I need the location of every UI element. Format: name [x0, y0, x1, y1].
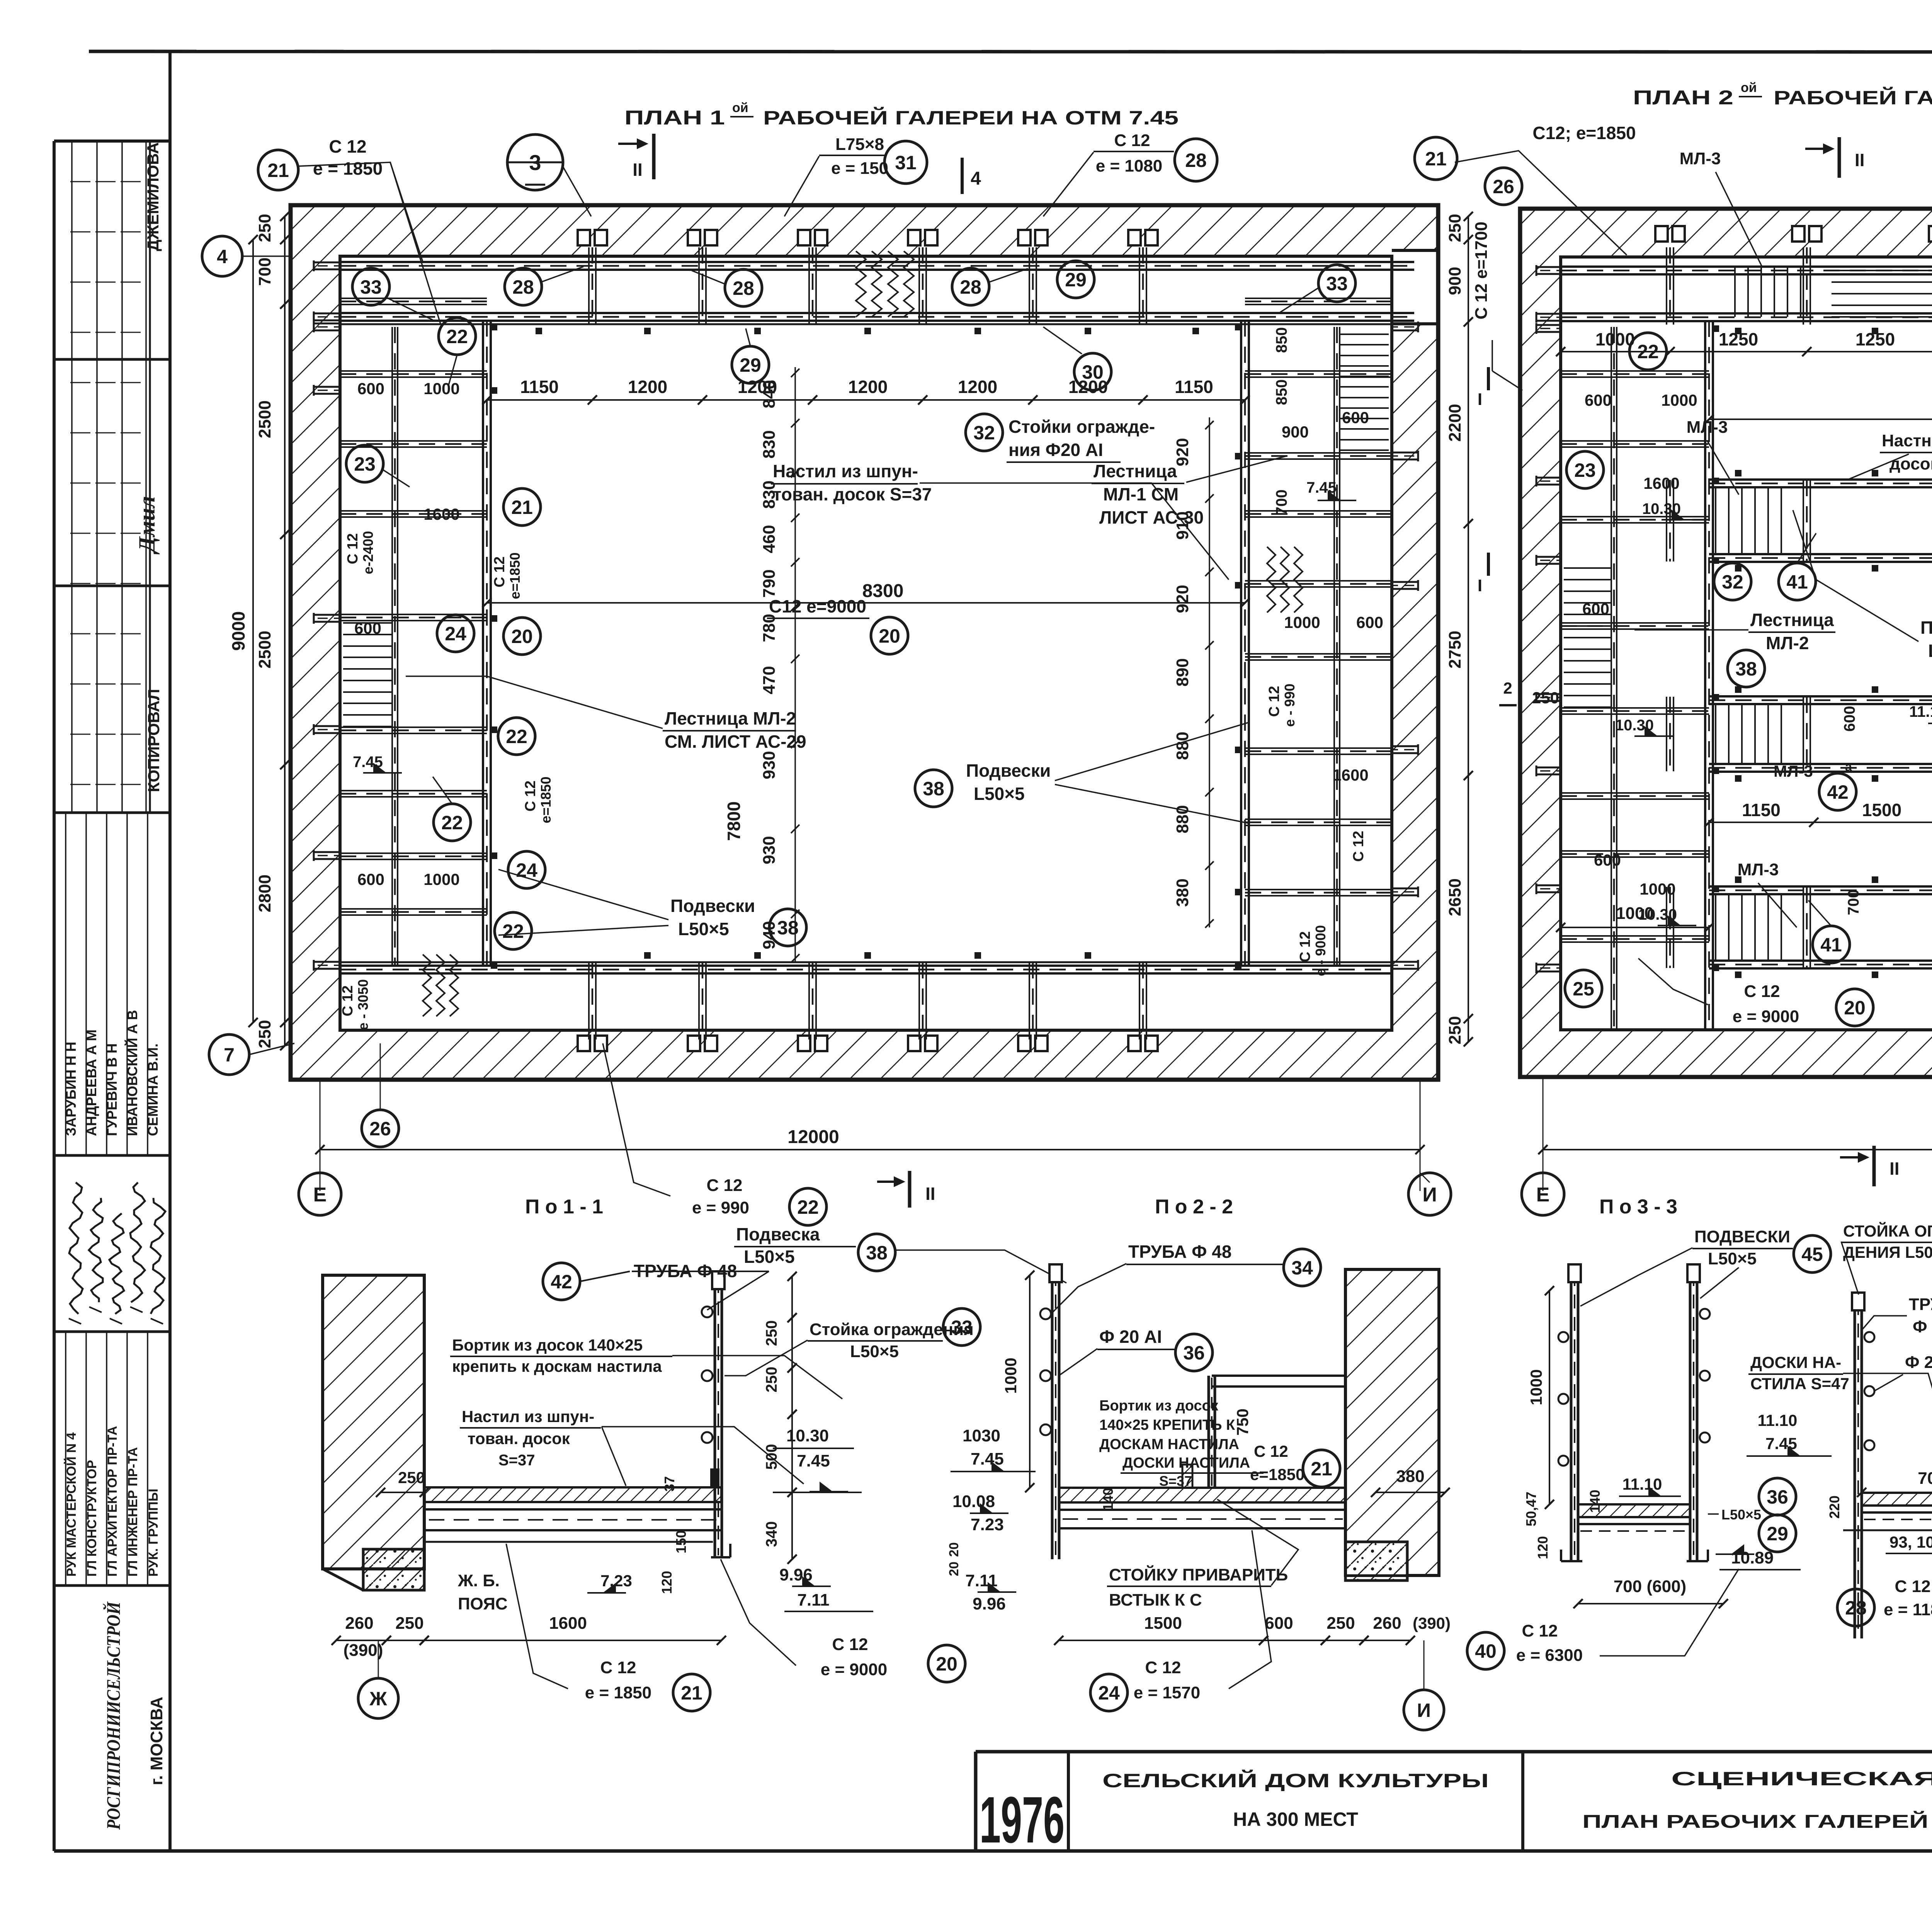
svg-text:II: II: [1855, 150, 1865, 170]
plan 1 callout 28 top right: [1175, 139, 1217, 181]
svg-text:L50×5: L50×5: [1928, 641, 1932, 661]
plan 1 right gallery dots: [1235, 324, 1242, 330]
svg-text:2: 2: [1503, 679, 1512, 697]
svg-text:250: 250: [255, 1020, 274, 1048]
svg-text:1000: 1000: [1661, 391, 1697, 409]
svg-text:21: 21: [1311, 1458, 1332, 1480]
svg-text:32: 32: [1722, 571, 1743, 593]
svg-text:Стойки огражде-: Стойки огражде-: [1009, 417, 1155, 437]
svg-text:Лестница: Лестница: [1750, 610, 1834, 630]
svg-text:29: 29: [1767, 1523, 1788, 1545]
section 4-4 C12 e1180 callout: [1837, 1589, 1874, 1626]
svg-text:2500: 2500: [255, 400, 274, 438]
svg-text:930: 930: [760, 836, 779, 864]
section 2-2 wall: [1345, 1269, 1439, 1575]
svg-text:26: 26: [369, 1118, 391, 1140]
plan 1 left gallery dots: [491, 324, 497, 330]
svg-text:30: 30: [1082, 361, 1104, 383]
svg-text:600: 600: [357, 379, 384, 398]
svg-text:28: 28: [733, 277, 754, 299]
svg-text:I: I: [1478, 576, 1482, 595]
svg-text:2200: 2200: [1446, 404, 1464, 442]
svg-text:И: И: [1417, 1700, 1431, 1721]
plan 1 left gallery compartments: [340, 298, 487, 299]
title block frame: [976, 1750, 1932, 1754]
svg-text:41: 41: [1786, 571, 1808, 593]
svg-text:20: 20: [936, 1653, 957, 1675]
svg-text:Подвески: Подвески: [1920, 618, 1932, 638]
svg-text:7.45: 7.45: [797, 1451, 830, 1470]
svg-text:8300: 8300: [862, 581, 904, 601]
svg-text:е = 1850: е = 1850: [313, 158, 383, 179]
svg-text:36: 36: [1767, 1486, 1788, 1508]
svg-text:23: 23: [1574, 459, 1596, 481]
plan 2 band B gallery: [1709, 478, 1932, 481]
svg-text:S=37: S=37: [1159, 1473, 1192, 1489]
svg-text:С 12: С 12: [1350, 831, 1367, 862]
svg-text:1200: 1200: [628, 377, 667, 397]
svg-text:11.10: 11.10: [1909, 703, 1932, 720]
svg-text:7800: 7800: [724, 801, 744, 841]
svg-text:2650: 2650: [1446, 878, 1464, 916]
svg-text:СТИЛА S=47: СТИЛА S=47: [1750, 1375, 1849, 1393]
axis circle E plan1: [299, 1173, 341, 1215]
svg-text:1150: 1150: [1175, 377, 1213, 397]
svg-text:е = 1080: е = 1080: [1096, 157, 1163, 175]
svg-text:600: 600: [1585, 391, 1612, 409]
svg-text:е = 990: е = 990: [692, 1198, 749, 1217]
svg-text:380: 380: [1396, 1467, 1424, 1486]
svg-text:20: 20: [1844, 997, 1866, 1019]
svg-text:700: 700: [1273, 490, 1290, 515]
svg-text:L50×5: L50×5: [974, 784, 1025, 804]
svg-text:РОСГИПРОНИИСЕЛЬСТРОЙ: РОСГИПРОНИИСЕЛЬСТРОЙ: [102, 1601, 124, 1830]
svg-text:32: 32: [973, 422, 995, 444]
svg-text:МЛ-3: МЛ-3: [1774, 762, 1813, 780]
section 1-1 wall: [323, 1275, 424, 1569]
plan 2 wall ring hatched: [1520, 209, 1932, 1077]
svg-text:28: 28: [1185, 150, 1207, 171]
plan 1 left outside dims: [284, 216, 286, 1046]
plan 1 dim 8300: [487, 602, 1245, 604]
svg-text:120: 120: [1535, 1536, 1551, 1559]
svg-text:Е: Е: [1536, 1184, 1550, 1206]
svg-text:е = 6300: е = 6300: [1516, 1646, 1583, 1665]
svg-text:380: 380: [1173, 878, 1192, 907]
section 3-3 bottom angles: [1561, 1560, 1582, 1562]
section 1-1 zh axis circle: [358, 1678, 398, 1718]
svg-text:ДОСКИ НА-: ДОСКИ НА-: [1750, 1353, 1841, 1371]
svg-text:С 12: С 12: [1266, 686, 1282, 717]
svg-text:L75×8: L75×8: [835, 135, 884, 154]
svg-text:1150: 1150: [520, 377, 559, 397]
svg-text:7: 7: [224, 1044, 235, 1066]
svg-text:600: 600: [1594, 851, 1621, 869]
svg-text:250: 250: [1446, 214, 1464, 242]
svg-text:II: II: [925, 1184, 935, 1204]
svg-text:900: 900: [1282, 423, 1309, 441]
svg-text:е - 990: е - 990: [1282, 684, 1298, 727]
svg-text:900: 900: [1446, 267, 1464, 295]
svg-text:250: 250: [1446, 1016, 1464, 1044]
svg-text:150: 150: [673, 1530, 689, 1553]
svg-text:22: 22: [441, 812, 463, 834]
section 3-3 deck: [1578, 1504, 1690, 1517]
svg-text:ПЛАН 2: ПЛАН 2: [1633, 87, 1733, 109]
svg-text:38: 38: [923, 778, 944, 800]
svg-text:1000: 1000: [1639, 880, 1675, 898]
section 3-3 C12 e6300 callout: [1467, 1632, 1504, 1669]
svg-text:1200: 1200: [958, 377, 997, 397]
svg-text:37: 37: [662, 1476, 677, 1492]
svg-text:С 12: С 12: [600, 1658, 636, 1677]
svg-text:4: 4: [217, 246, 228, 267]
svg-text:250: 250: [763, 1320, 780, 1346]
plan 2 top gallery posts pockets: [1655, 226, 1668, 242]
svg-text:е = 1180: е = 1180: [1884, 1600, 1932, 1619]
svg-text:С 12: С 12: [340, 985, 356, 1016]
svg-text:33: 33: [951, 1317, 973, 1338]
svg-text:1000: 1000: [423, 870, 459, 888]
plan 1 right gallery rails: [1240, 320, 1242, 966]
svg-text:40: 40: [1475, 1640, 1497, 1662]
plan 2 top gallery stair hatch: [1832, 270, 1932, 271]
plan 2 left gallery stair: [1564, 567, 1611, 569]
svg-text:260: 260: [345, 1614, 373, 1633]
svg-text:600: 600: [1582, 600, 1609, 618]
svg-text:ПОДВЕСКИ: ПОДВЕСКИ: [1694, 1227, 1790, 1246]
sheet frame: [89, 51, 1932, 52]
plan 1 right interior dim column: [1209, 417, 1210, 927]
plan 2 band D gallery: [1709, 885, 1932, 888]
svg-text:700: 700: [255, 257, 274, 286]
svg-text:II: II: [1889, 1159, 1900, 1179]
svg-text:20: 20: [947, 1542, 961, 1557]
svg-text:4: 4: [971, 168, 981, 189]
plan 1 bottom gallery posts: [578, 1036, 590, 1051]
svg-text:41: 41: [1820, 934, 1842, 956]
svg-text:24: 24: [1098, 1682, 1120, 1704]
stamp signatures 2: [69, 1182, 83, 1314]
svg-text:750: 750: [1233, 1409, 1252, 1436]
plan 1 top gallery rails: [340, 261, 1414, 263]
plan 1 gallery callouts top row: [352, 268, 389, 305]
plan 1 left gallery squiggle: [423, 954, 431, 1016]
svg-text:9000: 9000: [228, 611, 248, 651]
svg-text:L50×5: L50×5: [1721, 1507, 1761, 1523]
svg-text:С 12: С 12: [1522, 1621, 1558, 1640]
svg-text:ния Ф20 АI: ния Ф20 АI: [1009, 440, 1103, 460]
svg-text:260: 260: [1373, 1614, 1401, 1633]
svg-text:22: 22: [502, 920, 524, 942]
svg-text:1150: 1150: [1742, 800, 1781, 820]
svg-text:Настна из шпунтов.: Настна из шпунтов.: [1882, 431, 1932, 450]
svg-text:7.23: 7.23: [600, 1572, 632, 1590]
plan 1 callout 26 bottom: [362, 1110, 399, 1147]
plan 1 section II bottom mark: [908, 1171, 912, 1208]
svg-text:21: 21: [1425, 148, 1447, 170]
svg-text:50,47: 50,47: [1523, 1492, 1539, 1526]
svg-text:S=37: S=37: [498, 1452, 535, 1469]
svg-text:СЕЛЬСКИЙ ДОМ КУЛЬТУРЫ: СЕЛЬСКИЙ ДОМ КУЛЬТУРЫ: [1102, 1769, 1489, 1791]
svg-text:е = 150: е = 150: [831, 159, 888, 178]
plan 1 interior vertical dim column: [794, 367, 796, 962]
svg-text:2750: 2750: [1446, 631, 1464, 669]
svg-text:140: 140: [1100, 1488, 1116, 1511]
svg-text:1000: 1000: [1002, 1358, 1020, 1393]
svg-text:22: 22: [1637, 341, 1659, 362]
svg-text:С 12: С 12: [522, 781, 539, 811]
axis circle I plan1: [1408, 1173, 1451, 1215]
svg-text:7.45: 7.45: [1306, 479, 1337, 496]
axis circle E plan2: [1522, 1173, 1564, 1215]
svg-text:е - 3050: е - 3050: [355, 979, 371, 1030]
plan 1 right gallery stair ML-1: [1340, 333, 1389, 335]
svg-text:МЛ-3: МЛ-3: [1680, 149, 1721, 168]
svg-text:РАБОЧЕЙ ГАЛЕРЕИ НА ОТМ 7: РАБОЧЕЙ ГАЛЕРЕИ НА ОТМ 7.45: [763, 107, 1179, 129]
plan 2 dim 12000: [1543, 1149, 1932, 1150]
svg-text:И: И: [1422, 1184, 1437, 1206]
svg-text:1600: 1600: [549, 1614, 587, 1633]
svg-text:1250: 1250: [1719, 329, 1758, 349]
svg-text:Подвеска: Подвеска: [736, 1224, 820, 1244]
svg-text:28: 28: [960, 276, 981, 298]
svg-text:II: II: [633, 160, 643, 180]
svg-text:е=1850: е=1850: [1250, 1465, 1304, 1483]
plan 1 callout 21 top left: [258, 150, 298, 190]
svg-text:890: 890: [1173, 658, 1192, 686]
svg-text:Ф 20 АI: Ф 20 АI: [1905, 1353, 1932, 1372]
plan 1 top gallery deck squiggle: [856, 251, 866, 317]
svg-text:ой: ой: [1741, 80, 1757, 95]
svg-text:460: 460: [760, 525, 779, 553]
svg-text:7.23: 7.23: [971, 1515, 1004, 1534]
svg-text:790: 790: [760, 569, 779, 597]
svg-text:33: 33: [1326, 273, 1348, 294]
plan 2 left gallery: [1704, 321, 1706, 1030]
plan 1 wall outlines: [291, 205, 1438, 1080]
plan 1 right outside dims: [1468, 216, 1469, 1042]
section 1-1 railing post: [714, 1276, 716, 1557]
svg-text:С 12: С 12: [329, 136, 366, 157]
svg-text:е = 1570: е = 1570: [1134, 1683, 1201, 1702]
svg-text:34: 34: [1291, 1257, 1313, 1279]
plan 1 mark 2 right margin: [1499, 704, 1517, 706]
section 2-2 inner post: [1207, 1376, 1210, 1488]
svg-text:Стойка ограждения: Стойка ограждения: [810, 1320, 974, 1339]
svg-text:—: —: [525, 172, 545, 195]
svg-text:(390): (390): [344, 1641, 383, 1660]
svg-text:600: 600: [1265, 1614, 1293, 1633]
plan 1 dim 12000: [320, 1149, 1420, 1150]
svg-text:С 12: С 12: [1145, 1658, 1181, 1677]
svg-text:1200: 1200: [848, 377, 888, 397]
svg-text:38: 38: [1735, 658, 1757, 680]
plan 2 band C gallery: [1709, 695, 1932, 698]
svg-text:КОПИРОВАЛ: КОПИРОВАЛ: [145, 689, 163, 792]
svg-text:(390): (390): [1413, 1614, 1451, 1632]
svg-text:ТРУБА: ТРУБА: [1909, 1295, 1932, 1314]
svg-text:12000: 12000: [787, 1127, 839, 1147]
svg-text:С 12: С 12: [832, 1635, 868, 1654]
svg-text:22: 22: [797, 1196, 819, 1218]
section 2-2 axis I circle: [1404, 1690, 1444, 1730]
svg-text:С12; е=1850: С12; е=1850: [1532, 123, 1636, 143]
svg-text:С 12: С 12: [1895, 1577, 1931, 1596]
svg-text:Подвески: Подвески: [670, 896, 755, 916]
svg-text:9.96: 9.96: [973, 1594, 1006, 1613]
svg-text:20: 20: [511, 626, 533, 647]
svg-text:L50×5: L50×5: [744, 1247, 795, 1267]
svg-text:Е: Е: [313, 1184, 327, 1206]
svg-text:МЛ-3: МЛ-3: [1687, 418, 1728, 437]
svg-text:Ф 48: Ф 48: [1913, 1317, 1932, 1336]
svg-text:42: 42: [551, 1271, 572, 1293]
svg-text:42: 42: [1827, 781, 1849, 803]
svg-text:СТОЙКУ ПРИВАРИТЬ: СТОЙКУ ПРИВАРИТЬ: [1109, 1565, 1288, 1584]
svg-text:850: 850: [1273, 379, 1290, 405]
svg-text:МЛ-2: МЛ-2: [1766, 633, 1809, 653]
svg-text:I: I: [1478, 390, 1482, 409]
svg-text:20: 20: [879, 625, 900, 647]
svg-text:ТРУБА Ф 48: ТРУБА Ф 48: [1128, 1242, 1231, 1262]
svg-text:700: 700: [1845, 890, 1862, 915]
svg-text:850: 850: [1273, 327, 1290, 353]
plan 2 section marks bottom: [1872, 1146, 1876, 1186]
svg-text:Настил из шпун-: Настил из шпун-: [462, 1407, 594, 1426]
section 4-4 post: [1854, 1298, 1856, 1638]
plan 2 wall outlines: [1520, 209, 1932, 1077]
svg-text:L50×5: L50×5: [1708, 1249, 1757, 1268]
section 1-1 bottom angle: [711, 1556, 730, 1558]
svg-text:340: 340: [763, 1521, 780, 1547]
plan 2 dims 1000 bottom: [1561, 927, 1709, 928]
svg-text:Бортик из досок: Бортик из досок: [1099, 1398, 1219, 1414]
plan 1 section mark 3 top: [507, 134, 563, 190]
svg-text:2500: 2500: [255, 631, 274, 669]
svg-text:Подвески: Подвески: [966, 760, 1051, 781]
svg-text:26: 26: [1493, 176, 1514, 197]
plan 1 horizontal dims 1150-1200: [487, 399, 1245, 401]
svg-text:1600: 1600: [1332, 766, 1368, 784]
svg-text:СЦЕНИЧЕСКАЯ КОРОБКА.: СЦЕНИЧЕСКАЯ КОРОБКА.: [1671, 1768, 1932, 1790]
axis circle 7: [209, 1034, 249, 1075]
plan 1 section II top mark: [652, 134, 656, 179]
svg-text:е = 9000: е = 9000: [821, 1660, 888, 1679]
svg-text:7.45: 7.45: [971, 1449, 1004, 1468]
svg-text:250: 250: [398, 1468, 425, 1487]
svg-text:21: 21: [681, 1682, 702, 1704]
plan 1 left gallery stair ML-2: [343, 622, 392, 624]
svg-text:33: 33: [360, 276, 382, 298]
plan 1 callout 31 top: [884, 141, 927, 184]
svg-text:ДОСКАМ НАСТИЛА: ДОСКАМ НАСТИЛА: [1099, 1436, 1239, 1453]
svg-text:С 12: С 12: [345, 533, 361, 564]
svg-text:93, 10 88: 93, 10 88: [1889, 1533, 1932, 1551]
svg-text:250: 250: [255, 214, 274, 242]
svg-text:36: 36: [1183, 1342, 1205, 1364]
svg-text:830: 830: [760, 430, 779, 458]
svg-text:крепить к доскам настила: крепить к доскам настила: [452, 1357, 662, 1375]
svg-text:ой: ой: [732, 100, 748, 115]
svg-text:920: 920: [1173, 585, 1192, 613]
svg-text:досок S = 37: досок S = 37: [1889, 454, 1932, 473]
svg-text:22: 22: [506, 726, 527, 747]
svg-text:Бортик из досок 140×25: Бортик из досок 140×25: [452, 1336, 643, 1354]
section 3-3 right post: [1689, 1269, 1692, 1561]
svg-text:е-2400: е-2400: [360, 531, 376, 574]
section 3-3 left post: [1570, 1269, 1573, 1561]
svg-text:С 12: С 12: [1744, 982, 1780, 1001]
svg-text:25: 25: [1573, 978, 1594, 1000]
svg-text:10.08: 10.08: [952, 1492, 995, 1511]
section 2-2 deck: [1059, 1488, 1345, 1502]
svg-text:20: 20: [947, 1562, 961, 1576]
plan 2 top margin callouts: [1415, 137, 1457, 180]
svg-text:НА 300 МЕСТ: НА 300 МЕСТ: [1233, 1808, 1358, 1830]
axis circle 4: [202, 236, 242, 276]
svg-text:ПЛАН 1: ПЛАН 1: [624, 107, 725, 129]
plan 1 mark |4 top: [961, 158, 964, 194]
svg-text:38: 38: [866, 1242, 888, 1264]
svg-text:С 12: С 12: [1254, 1442, 1288, 1460]
plan 2 top gallery rungs: [1734, 267, 1736, 317]
plan 2 section I marks: [1487, 367, 1490, 390]
svg-text:11.10: 11.10: [1758, 1411, 1798, 1429]
section 2-2 concrete: [1347, 1543, 1406, 1574]
plan 1 left gallery rails: [482, 320, 484, 966]
plan 1 right gallery squiggle: [1267, 547, 1276, 612]
svg-text:е=1850: е=1850: [538, 776, 554, 823]
svg-text:29: 29: [1065, 269, 1087, 291]
plan 1 bottom gallery rails: [340, 965, 1392, 967]
svg-text:е = 9000: е = 9000: [1733, 1007, 1799, 1026]
svg-text:П о 3 - 3: П о 3 - 3: [1599, 1196, 1677, 1218]
svg-text:880: 880: [1173, 732, 1192, 760]
svg-text:24: 24: [445, 623, 466, 645]
svg-text:38: 38: [777, 917, 799, 939]
svg-text:L50×5: L50×5: [678, 919, 729, 939]
svg-text:45: 45: [1801, 1244, 1823, 1265]
svg-text:1500: 1500: [1144, 1614, 1182, 1633]
svg-text:1000: 1000: [423, 379, 459, 398]
svg-text:500: 500: [763, 1444, 780, 1470]
svg-text:МЛ-1 СМ: МЛ-1 СМ: [1103, 484, 1179, 504]
plan 2 dim 8300: [1709, 419, 1932, 420]
plan 1 callout 22 bottom + C12 e990: [789, 1188, 827, 1225]
svg-text:ВСТЫК К С: ВСТЫК К С: [1109, 1591, 1202, 1609]
svg-text:220: 220: [1827, 1495, 1842, 1519]
svg-text:г. МОСКВА: г. МОСКВА: [147, 1697, 166, 1785]
svg-text:1600: 1600: [1643, 474, 1679, 492]
svg-text:250: 250: [395, 1614, 423, 1633]
svg-text:1030: 1030: [963, 1426, 1000, 1445]
svg-text:Настил из шпун-: Настил из шпун-: [773, 461, 918, 481]
svg-text:С 12: С 12: [1297, 931, 1313, 962]
plan 1 left gallery callouts: [439, 318, 476, 355]
svg-text:ДОСКИ НАСТИЛА: ДОСКИ НАСТИЛА: [1122, 1455, 1250, 1471]
svg-text:700: 700: [1918, 1469, 1932, 1488]
svg-text:МЛ-3: МЛ-3: [1738, 860, 1779, 879]
svg-text:тован. досок S=37: тован. досок S=37: [773, 484, 932, 504]
svg-text:600: 600: [1342, 408, 1369, 427]
svg-text:31: 31: [895, 152, 917, 174]
section 4-4 deck: [1862, 1493, 1932, 1506]
svg-text:Дмил: Дмил: [134, 496, 160, 555]
svg-text:ДЕНИЯ L50×5: ДЕНИЯ L50×5: [1843, 1243, 1932, 1261]
svg-text:140×25 КРЕПИТЬ К: 140×25 КРЕПИТЬ К: [1099, 1417, 1235, 1433]
plan 1 wall ring hatched: [291, 205, 1438, 1080]
